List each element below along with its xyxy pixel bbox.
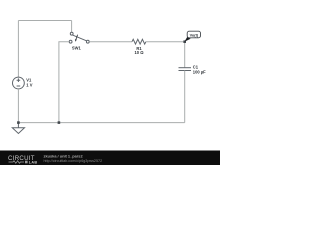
resistor R1	[132, 39, 146, 44]
flag Vo(t)	[187, 31, 200, 38]
label C1 value	[193, 65, 206, 75]
svg-text:LAB: LAB	[29, 161, 38, 165]
wire: switch to resistor	[89, 41, 132, 43]
svg-text:zkuska / unit 1_pars2: zkuska / unit 1_pars2	[44, 154, 84, 159]
junction: V1 / ground / rail	[17, 121, 20, 124]
wire: capacitor to bottom rail	[184, 71, 186, 123]
svg-text:1 V: 1 V	[26, 82, 32, 87]
banner background	[0, 151, 220, 166]
svg-text:SW1: SW1	[72, 45, 82, 50]
ground	[12, 123, 24, 134]
svg-text:Vo(t): Vo(t)	[190, 32, 199, 37]
switch SW1	[69, 32, 89, 43]
wire: bottom rail	[18, 122, 184, 124]
wire: down to switch common	[71, 21, 73, 33]
wire: switch left throw	[59, 42, 69, 123]
label V1 value	[26, 78, 32, 88]
wire: V1 top lead up	[17, 21, 19, 78]
voltage source V1	[13, 77, 25, 89]
wire: output node down to capacitor	[184, 42, 186, 68]
svg-text:100 µF: 100 µF	[193, 69, 206, 74]
logo CIRCUITLAB	[8, 155, 37, 165]
junction: discharge leg / rail	[58, 121, 61, 124]
svg-text:10 Ω: 10 Ω	[135, 50, 145, 55]
svg-text:http://circuitlab.com/c/p6g3pw: http://circuitlab.com/c/p6g3pws2572	[44, 159, 103, 163]
capacitor C1	[179, 68, 192, 71]
label R1 value	[135, 46, 145, 55]
wire: V1 bottom lead	[17, 89, 19, 123]
flag Vo(t) pointer	[184, 37, 190, 42]
wire: top rail	[18, 20, 71, 22]
node Vout junction	[183, 40, 186, 43]
wire: resistor to output node	[146, 41, 185, 43]
